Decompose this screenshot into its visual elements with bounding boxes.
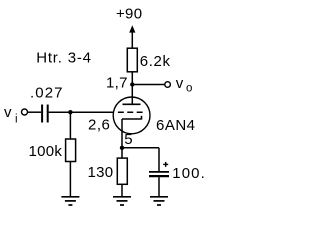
svg-text:100k: 100k (29, 143, 63, 160)
svg-text:Htr. 3-4: Htr. 3-4 (36, 49, 92, 66)
svg-text:v: v (176, 75, 184, 92)
svg-text:1,7: 1,7 (106, 75, 128, 92)
svg-text:2,6: 2,6 (88, 116, 110, 133)
svg-text:o: o (186, 83, 193, 95)
svg-text:i: i (15, 113, 18, 125)
svg-text:100.: 100. (172, 165, 206, 182)
svg-text:+90: +90 (116, 5, 142, 22)
svg-text:5: 5 (124, 131, 133, 148)
svg-text:v: v (4, 104, 12, 121)
svg-text:130: 130 (88, 164, 114, 181)
svg-text:6.2k: 6.2k (140, 53, 171, 70)
svg-text:6AN4: 6AN4 (156, 117, 196, 134)
svg-text:.027: .027 (30, 85, 64, 102)
